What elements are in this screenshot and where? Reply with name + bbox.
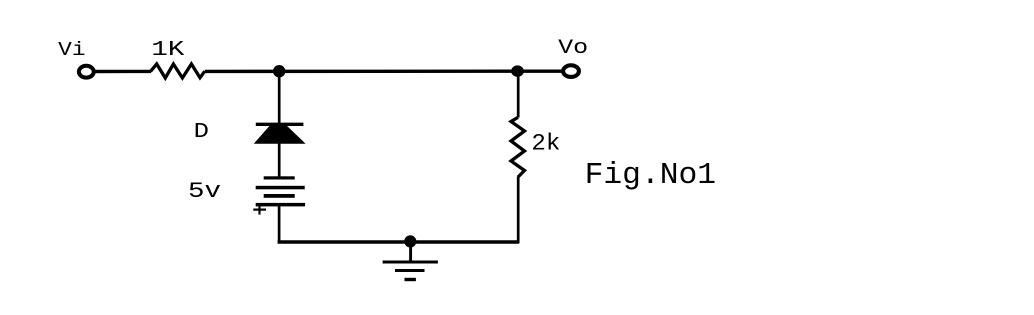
battery B1 plate 4 long	[256, 203, 305, 207]
battery plus sign	[253, 209, 266, 211]
svg-text:Vo: Vo	[558, 37, 588, 60]
wire R2 to bottom rail	[517, 177, 520, 244]
terminal Vo	[563, 65, 579, 77]
ground bar 2	[395, 269, 425, 272]
ground node junction dot	[404, 235, 416, 247]
wire diode to battery	[278, 141, 281, 178]
terminal Vi	[79, 66, 94, 78]
ground bar 1	[383, 261, 438, 264]
wire Vi to R1	[96, 70, 152, 73]
wire R1 to node A and on to Vo	[205, 69, 562, 73]
node B junction dot	[511, 65, 524, 76]
resistor R1 1K	[151, 64, 205, 78]
svg-text:5v: 5v	[188, 179, 221, 204]
svg-text:Vi: Vi	[58, 39, 85, 61]
wire node A down to diode	[278, 71, 281, 126]
ground stub	[409, 242, 412, 262]
ground bar 3	[405, 278, 416, 281]
svg-text:Fig.No1: Fig.No1	[585, 158, 717, 193]
bottom rail wire	[278, 240, 520, 244]
node A junction dot	[273, 65, 285, 77]
diode D cathode bar	[256, 123, 304, 126]
resistor R2 2k	[511, 117, 525, 177]
wire battery to bottom rail	[278, 206, 281, 243]
svg-text:D: D	[194, 120, 209, 144]
svg-text:1K: 1K	[151, 38, 184, 62]
svg-text:2k: 2k	[531, 131, 560, 157]
battery B1 plate 3 short	[264, 194, 295, 198]
wire node B down to R2	[517, 71, 520, 117]
diode D triangle	[254, 126, 306, 144]
battery B1 plate 2 long	[256, 186, 305, 190]
battery B1 plate 1 short	[264, 176, 295, 179]
